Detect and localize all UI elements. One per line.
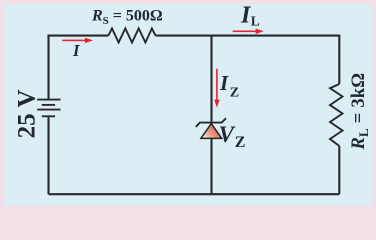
- wire: right branch upper (top-right corner to R_L): [338, 36, 340, 84]
- wire: left branch lower (battery - to bottom-left corner): [47, 117, 49, 194]
- battery B1 short plate bottom: [42, 115, 55, 117]
- svg-text:RS = 500Ω: RS = 500Ω: [91, 8, 163, 28]
- zener diode D1 anode triangle: [201, 124, 222, 139]
- zener diode cathode bar: [196, 118, 226, 127]
- svg-text:25 V: 25 V: [14, 90, 41, 139]
- wire: right branch lower (R_L to bottom-right corner): [338, 146, 340, 194]
- battery B1 long plate top: [37, 99, 60, 101]
- wire: left branch upper (to battery + terminal): [47, 36, 49, 99]
- resistor R_L: [330, 84, 343, 146]
- battery B1 short plate: [42, 104, 55, 106]
- svg-text:I: I: [219, 71, 229, 95]
- svg-text:Z: Z: [230, 86, 239, 101]
- wire: top-left segment (node A to R_S): [49, 36, 109, 37]
- svg-text:I: I: [72, 41, 80, 60]
- svg-text:L: L: [251, 14, 260, 29]
- wire: middle branch upper (top node to zener cathode): [210, 36, 212, 122]
- wire: top segment from R_S to top-right corner: [156, 36, 340, 37]
- wire: middle branch lower (zener anode to bottom rail): [210, 139, 212, 195]
- current arrow I_Z (middle, downward): [216, 69, 218, 100]
- battery B1 long plate: [37, 109, 60, 111]
- wire: bottom rail: [49, 193, 340, 195]
- resistor R_S: [108, 28, 155, 42]
- svg-text:Z: Z: [235, 134, 246, 151]
- svg-text:RL = 3kΩ: RL = 3kΩ: [349, 73, 371, 151]
- svg-text:V: V: [219, 122, 236, 147]
- current arrow I (top-left): [62, 40, 86, 42]
- current arrow I_L (top-right): [233, 31, 258, 33]
